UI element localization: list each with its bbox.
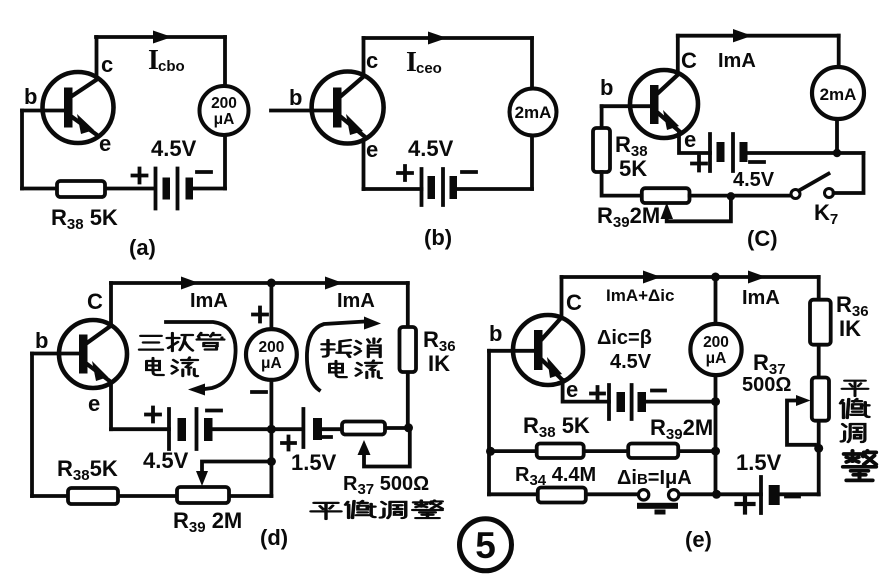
wire: (a) bottom wire bbox=[22, 187, 225, 191]
meter 2mA (b) bbox=[510, 89, 557, 136]
potentiometer R37 (e) vertical bbox=[787, 378, 829, 445]
text ping heng tiao zheng vertical (e) bbox=[841, 381, 877, 481]
wire: (d) collector lead bbox=[109, 283, 113, 326]
potentiometer R39 (c) bbox=[642, 188, 731, 221]
switch deltaIb (e) bbox=[638, 490, 679, 500]
potentiometer R39 (d) bbox=[177, 462, 271, 504]
svg-text:c: c bbox=[366, 48, 378, 73]
meter 200uA (a) bbox=[200, 86, 249, 135]
svg-text:μA: μA bbox=[706, 350, 727, 367]
svg-text:ImA: ImA bbox=[337, 290, 375, 312]
svg-text:4.5V: 4.5V bbox=[610, 351, 652, 373]
wire: (c) emitter lead bbox=[679, 132, 710, 153]
svg-text:ImA: ImA bbox=[190, 290, 228, 312]
svg-text:5K: 5K bbox=[619, 156, 647, 181]
svg-text:e: e bbox=[88, 391, 100, 416]
svg-text:(a): (a) bbox=[129, 235, 156, 260]
svg-text:R38 5K: R38 5K bbox=[523, 413, 590, 441]
svg-text:ImA+Δic: ImA+Δic bbox=[606, 286, 674, 305]
svg-text:200: 200 bbox=[703, 334, 729, 351]
junction dot (d) top wire / meter bbox=[267, 279, 276, 288]
svg-text:ceo: ceo bbox=[416, 60, 442, 77]
junction dot (e) row1 left bbox=[486, 447, 495, 456]
junction dot (e) row2 right bbox=[712, 490, 721, 499]
wire: (e) right vertical bbox=[817, 277, 821, 494]
battery 1.5V (d) bbox=[282, 409, 331, 450]
svg-text:IK: IK bbox=[428, 351, 450, 376]
wire: (d) emitter lead bbox=[109, 382, 113, 429]
battery 4.5V (a) bbox=[133, 169, 212, 209]
transistor Q (a) bbox=[43, 72, 114, 143]
wire: (d) meter vertical bbox=[269, 283, 273, 496]
meter 2mA (c) bbox=[812, 67, 864, 119]
wire: (b) bottom wire bbox=[364, 187, 533, 191]
svg-text:b: b bbox=[35, 328, 48, 353]
current arrow on (c) top wire bbox=[733, 29, 752, 42]
junction dot (e) row1 right bbox=[711, 447, 720, 456]
text san ji guan (d) bbox=[139, 333, 224, 351]
svg-text:R34 4.4M: R34 4.4M bbox=[515, 464, 596, 489]
svg-text:e: e bbox=[566, 377, 578, 402]
wire: (b) collector lead bbox=[362, 38, 366, 76]
svg-text:C: C bbox=[566, 290, 582, 315]
svg-text:IK: IK bbox=[839, 316, 861, 341]
wire: (a) collector lead bbox=[95, 37, 99, 79]
transistor Q (d) bbox=[59, 320, 127, 388]
wire: (b) base stub open bbox=[271, 109, 333, 113]
wire: (d) left vertical bbox=[30, 354, 34, 497]
current arrow on (a) top wire bbox=[153, 31, 172, 44]
junction dot (e) top wire / meter bbox=[711, 273, 720, 282]
potentiometer R37 (d) bbox=[342, 422, 410, 467]
svg-text:4.5V: 4.5V bbox=[143, 448, 189, 473]
svg-text:2mA: 2mA bbox=[515, 103, 552, 122]
battery 4.5V (e) bbox=[591, 385, 665, 419]
wire: (e) meter vertical bbox=[714, 277, 718, 494]
wire: (d) mid wire with batteries bbox=[111, 428, 408, 429]
wire: (c) bottom wire to switch bbox=[690, 194, 792, 198]
wire: (c) battery to right vertical bbox=[748, 151, 864, 155]
wire: (c) base lead bbox=[602, 104, 650, 108]
wire: (a) meter leads bbox=[223, 37, 227, 189]
battery 4.5V (c) bbox=[692, 134, 764, 171]
junction dot (d) wiper wire bbox=[267, 457, 276, 466]
svg-text:C: C bbox=[87, 289, 103, 314]
wire: (e) emitter lead bbox=[563, 380, 609, 402]
svg-text:c: c bbox=[101, 52, 113, 77]
current arrow 1 on (d) top wire bbox=[181, 277, 199, 290]
wire: (e) battery to meter vertical bbox=[646, 400, 716, 404]
wire: (b) top wire bbox=[364, 36, 533, 40]
svg-text:4.5V: 4.5V bbox=[408, 136, 454, 161]
junction dot (e) emitter row bbox=[711, 397, 720, 406]
svg-text:b: b bbox=[489, 321, 502, 346]
current loop bubble left (d) bbox=[166, 322, 236, 396]
svg-text:e: e bbox=[684, 127, 696, 152]
wire: (c) top wire bbox=[678, 34, 839, 38]
resistor R38 (e) bbox=[537, 444, 584, 459]
svg-text:e: e bbox=[99, 131, 111, 156]
current loop bubble right (d) bbox=[307, 317, 381, 391]
resistor R38 (a) bbox=[57, 181, 105, 197]
wire: (a) left vertical bbox=[20, 111, 24, 189]
ground mark under switch (e) bbox=[637, 503, 678, 509]
svg-text:ΔiB=IμA: ΔiB=IμA bbox=[617, 467, 692, 489]
svg-text:4.5V: 4.5V bbox=[733, 169, 775, 191]
svg-text:R37 500Ω: R37 500Ω bbox=[343, 473, 429, 498]
svg-text:cbo: cbo bbox=[158, 58, 185, 75]
resistor R34 (e) bbox=[538, 488, 586, 503]
wire: (b) meter leads bbox=[530, 38, 534, 189]
svg-text:b: b bbox=[289, 85, 302, 110]
wire: (d) right vertical bbox=[406, 283, 410, 428]
resistor R38 (d) bbox=[68, 488, 118, 504]
svg-text:R39 2M: R39 2M bbox=[173, 508, 242, 536]
text dian liu (d-left) bbox=[147, 358, 198, 377]
wire: (a) top wire collector to meter bbox=[96, 35, 225, 39]
wire: (d) bottom wire bbox=[32, 494, 271, 498]
text di xiao (d) bbox=[322, 339, 380, 358]
wire: (e) battery 1.5V row bbox=[716, 492, 819, 496]
battery 4.5V (b) bbox=[398, 166, 476, 205]
wire: (c) left vertical to R38 bbox=[600, 106, 604, 128]
current arrow 2 on (e) top wire bbox=[748, 271, 766, 284]
svg-text:(d): (d) bbox=[260, 525, 288, 550]
wire: (e) collector lead bbox=[560, 277, 564, 318]
svg-text:1.5V: 1.5V bbox=[291, 450, 337, 475]
svg-text:500Ω: 500Ω bbox=[742, 374, 791, 396]
figure number circled 5 bbox=[460, 519, 512, 571]
svg-text:200: 200 bbox=[211, 95, 237, 112]
resistor R38 (c) vertical bbox=[593, 128, 610, 172]
junction dot (e) pot bottom bbox=[814, 444, 823, 453]
wire: (c) meter leads bbox=[837, 36, 839, 153]
svg-text:(C): (C) bbox=[747, 226, 778, 251]
junction dot on (c) bottom wire bbox=[727, 192, 735, 200]
text dian liu (d-right) bbox=[330, 360, 382, 378]
wire: (e) top wire bbox=[562, 275, 819, 279]
svg-text:b: b bbox=[600, 75, 613, 100]
svg-text:1.5V: 1.5V bbox=[736, 450, 782, 475]
svg-text:C: C bbox=[681, 48, 697, 73]
wire: (b) emitter lead bbox=[362, 140, 366, 189]
svg-text:ImA: ImA bbox=[742, 287, 780, 309]
transistor Q (b) bbox=[312, 72, 384, 144]
junction dot (d) right vertical / pot out bbox=[404, 423, 413, 432]
battery 1.5V (e) bbox=[737, 477, 800, 513]
wire: (d) top wire bbox=[111, 281, 408, 285]
meter 200uA (e) bbox=[690, 324, 741, 375]
plus above meter (d) bbox=[253, 308, 267, 322]
resistor R39 (e) bbox=[628, 444, 678, 459]
wire: (e) row1 R38 R39 bbox=[489, 449, 716, 453]
current arrow 2 on (d) top wire bbox=[325, 277, 343, 290]
wire: (e) base lead bbox=[489, 349, 534, 353]
wire: (c) collector lead bbox=[676, 36, 680, 74]
svg-text:200: 200 bbox=[258, 339, 284, 356]
wire: (e) row2 R34 switch bbox=[489, 492, 716, 496]
svg-text:μA: μA bbox=[261, 355, 282, 372]
wire: (c) switch to right vertical bbox=[834, 153, 864, 193]
svg-text:2mA: 2mA bbox=[820, 85, 857, 104]
current arrow 1 on (e) top wire bbox=[643, 271, 661, 284]
transistor Q (e) bbox=[513, 315, 583, 385]
svg-text:e: e bbox=[366, 137, 378, 162]
meter 200uA (d) bbox=[246, 329, 297, 380]
svg-text:Δic=β: Δic=β bbox=[597, 327, 652, 349]
junction dot (d) mid wire bbox=[267, 425, 276, 434]
minus below meter (d) bbox=[252, 390, 266, 394]
battery 4.5V (d) bbox=[146, 408, 221, 450]
svg-text:5: 5 bbox=[475, 525, 496, 566]
wire: (d) base lead bbox=[32, 352, 79, 356]
wire: (e) left vertical bbox=[487, 351, 491, 495]
svg-text:μA: μA bbox=[214, 111, 235, 128]
svg-text:ImA: ImA bbox=[718, 50, 756, 72]
svg-text:(b): (b) bbox=[424, 225, 452, 250]
resistor R36 (e) bbox=[810, 300, 831, 345]
wire: (a) base lead bbox=[22, 109, 64, 113]
svg-text:(e): (e) bbox=[685, 527, 712, 552]
svg-text:R38 5K: R38 5K bbox=[51, 205, 118, 233]
svg-text:b: b bbox=[24, 84, 37, 109]
wire: (c) left vertical below R38 bbox=[602, 172, 642, 196]
switch K7 (c) bbox=[791, 174, 834, 199]
transistor Q (c) bbox=[630, 70, 698, 138]
text ping heng tiao zheng (d) bbox=[311, 500, 442, 519]
resistor R36 (d) bbox=[400, 327, 417, 372]
junction dot (c) meter bottom bbox=[833, 149, 841, 157]
svg-text:4.5V: 4.5V bbox=[151, 136, 197, 161]
current arrow on (b) top wire bbox=[428, 32, 447, 45]
